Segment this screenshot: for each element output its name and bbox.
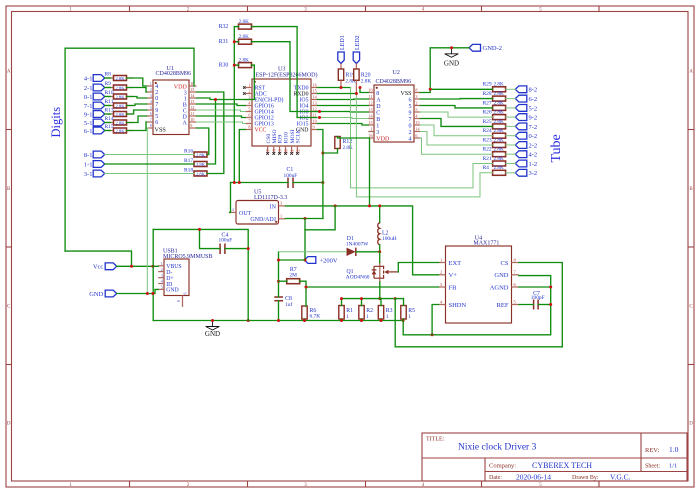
resistor R31 2.8K (219, 34, 255, 45)
svg-text:7: 7 (409, 117, 412, 123)
svg-text:GND: GND (205, 330, 220, 338)
resistor R6 6.7K (302, 306, 320, 320)
port Vcc (93, 263, 117, 271)
wire IN net (U5 IN to L2 to U4 V+) (286, 206, 439, 275)
svg-text:1: 1 (408, 314, 411, 320)
junction bottom rail (211, 319, 214, 322)
svg-text:D: D (689, 422, 693, 427)
svg-text:1/1: 1/1 (669, 463, 677, 470)
svg-text:1uf: 1uf (285, 301, 292, 308)
port LED1 (338, 35, 346, 63)
resistor R28 2.8K (483, 91, 506, 101)
port GND-2 (469, 44, 502, 52)
ic U5 LD1117D-3.3 (230, 190, 288, 225)
wire to port 2-2 (506, 144, 516, 146)
wire R5 top (395, 299, 403, 306)
port 9-2 (515, 114, 537, 122)
svg-text:R31: R31 (219, 39, 229, 45)
resistor R4 2.8K (483, 165, 506, 175)
svg-text:2-2: 2-2 (529, 142, 538, 149)
svg-text:6.7K: 6.7K (310, 314, 321, 320)
junction GND/ADJ tap (304, 217, 307, 220)
wire to port 3-2 (506, 172, 516, 174)
wire U1 VSS to GND column (147, 128, 148, 294)
svg-text:R13: R13 (105, 107, 114, 113)
svg-text:1: 1 (346, 314, 349, 320)
svg-text:6: 6 (150, 112, 152, 116)
svg-text:Vcc: Vcc (93, 264, 104, 271)
svg-text:R25: R25 (483, 119, 492, 125)
svg-text:Drawn By:: Drawn By: (572, 475, 599, 481)
wire digit line 4 (105, 113, 111, 115)
svg-text:R24: R24 (483, 128, 492, 134)
svg-text:CS0: CS0 (266, 134, 272, 144)
svg-text:2: 2 (150, 88, 152, 92)
junction REF-C7 (549, 303, 552, 306)
port 0-1 (84, 93, 105, 101)
svg-text:+200V: +200V (320, 257, 338, 264)
svg-text:2.8K: 2.8K (494, 91, 504, 97)
no-connect RST ADC (243, 86, 246, 89)
svg-text:R22: R22 (483, 147, 492, 153)
capacitor C8 1uf (274, 296, 292, 308)
svg-text:6-1: 6-1 (84, 128, 93, 135)
wire D1 anode row (279, 251, 347, 253)
svg-text:C: C (376, 110, 380, 116)
svg-text:A: A (689, 70, 693, 75)
svg-text:2020-06-14: 2020-06-14 (516, 473, 551, 482)
junction R17 branch (214, 98, 217, 101)
port 2-2 (515, 142, 537, 150)
resistor R19 2.8K (338, 64, 356, 88)
junction +200V row (277, 259, 280, 262)
svg-text:V+: V+ (449, 272, 458, 279)
wire digit line 0 (105, 77, 111, 79)
svg-text:IO10: IO10 (284, 132, 290, 144)
junction IO2 row (318, 116, 321, 119)
connector USB1 MICRO5.9MMUSB (158, 249, 212, 308)
resistor R17 2.8K (184, 158, 207, 167)
port 5-1 (84, 119, 105, 127)
svg-text:R26: R26 (483, 110, 492, 116)
svg-text:1: 1 (150, 82, 152, 86)
svg-text:1.0: 1.0 (669, 445, 679, 454)
junction GND row (146, 292, 149, 295)
svg-text:Sheet:: Sheet: (645, 464, 660, 470)
wire R5 bottom to U4 GND net (403, 276, 551, 335)
capacitor C1 100uF (284, 167, 298, 188)
port 6-1 (84, 127, 105, 135)
junction R12 tap (321, 152, 324, 155)
svg-text:2: 2 (415, 101, 417, 106)
wire to port 0-2 (506, 135, 516, 137)
svg-text:Company:: Company: (489, 463, 516, 470)
svg-text:REF: REF (497, 302, 509, 309)
wire U3 IO5 to U2 A (318, 98, 369, 101)
svg-text:R28: R28 (483, 91, 492, 97)
svg-text:9: 9 (190, 123, 192, 128)
wire GND flag to USB GND pin (117, 293, 154, 295)
svg-text:2.8K: 2.8K (196, 152, 206, 157)
wire VCC net top-left (U1 VDD rail) (65, 48, 194, 251)
resistor R15 2.8K (105, 124, 134, 133)
svg-text:1: 1 (440, 257, 442, 262)
junction source (378, 297, 381, 300)
svg-text:Tube: Tube (549, 134, 564, 162)
resistor R14 2.8K (105, 116, 134, 126)
resistor R26 2.8K (483, 110, 506, 120)
svg-text:3: 3 (376, 130, 379, 136)
wire TXD0 net to R21 wrap with R19 tap and U2 pin8 branch (318, 87, 351, 89)
svg-text:6: 6 (248, 113, 250, 118)
svg-text:13: 13 (368, 107, 372, 112)
svg-text:5: 5 (161, 285, 163, 290)
svg-text:CD4028BM96: CD4028BM96 (376, 79, 412, 85)
svg-text:7-2: 7-2 (529, 124, 538, 131)
port 1-1 (84, 161, 105, 169)
wire CS net loop (395, 263, 562, 347)
svg-text:3-2: 3-2 (529, 170, 538, 177)
svg-text:15: 15 (368, 120, 372, 125)
junction IO0 row (318, 110, 321, 113)
wire U2 VDD to R12 (338, 137, 369, 139)
svg-text:1: 1 (376, 123, 379, 129)
wire U3 GND down column to GND/ADJ (318, 130, 323, 219)
svg-text:R11: R11 (105, 99, 114, 105)
svg-text:2: 2 (248, 89, 250, 94)
svg-text:LED1: LED1 (340, 35, 346, 50)
wire to port 8-2 (506, 88, 516, 90)
svg-text:9-1: 9-1 (84, 111, 93, 118)
svg-text:2.8K: 2.8K (196, 162, 206, 167)
svg-text:ESP-12F(ESP8266MOD): ESP-12F(ESP8266MOD) (256, 72, 318, 79)
svg-text:3: 3 (161, 273, 163, 278)
svg-text:8: 8 (248, 125, 250, 130)
wire +200V column x=278.5 (279, 259, 305, 261)
port 3-2 (515, 169, 537, 177)
svg-text:2-1: 2-1 (84, 85, 93, 92)
svg-text:10: 10 (313, 119, 317, 124)
wire digit line 5 (105, 122, 111, 124)
svg-text:GND: GND (494, 272, 508, 279)
svg-text:EXT: EXT (449, 260, 462, 267)
port 2-1 (84, 84, 105, 92)
wire U1 pin15 to R18 (197, 92, 224, 174)
wire digit line 3 (105, 105, 111, 107)
resistor R7 2M (287, 267, 300, 284)
port 4-1 (84, 75, 105, 83)
junction R19 bottom (340, 86, 343, 89)
wire stair U2 pin2 to R23 (420, 132, 492, 146)
svg-text:2M: 2M (289, 273, 297, 279)
svg-text:1: 1 (280, 213, 282, 218)
port 7-2 (515, 123, 537, 131)
svg-text:3: 3 (150, 94, 152, 98)
svg-text:9: 9 (313, 125, 315, 130)
resistor R13 2.8K (105, 107, 134, 117)
svg-text:2.8K: 2.8K (494, 156, 504, 162)
svg-text:GND: GND (444, 59, 459, 67)
junction L2 bottom (378, 250, 381, 253)
svg-text:CS: CS (501, 260, 509, 267)
ic U4 MAX1771 (439, 236, 519, 324)
svg-text:5-2: 5-2 (529, 105, 538, 112)
resistor R25 2.8K (483, 119, 506, 129)
svg-text:3-1: 3-1 (84, 171, 93, 178)
junction C4 right (247, 247, 250, 250)
svg-text:R32: R32 (219, 24, 229, 30)
wire to port 4-2 (506, 153, 516, 155)
svg-text:2.8K: 2.8K (494, 165, 504, 171)
svg-text:2.8K: 2.8K (115, 94, 125, 99)
svg-text:2.8K: 2.8K (494, 119, 504, 125)
svg-text:TITLE:: TITLE: (426, 437, 445, 443)
svg-text:R17: R17 (184, 158, 193, 164)
svg-text:R9: R9 (105, 81, 112, 87)
wire to port 5-2 (506, 107, 516, 109)
svg-text:5: 5 (248, 107, 250, 112)
wire Q1 source to sense rail (379, 282, 381, 299)
svg-text:D-: D- (166, 270, 172, 276)
wire port 1-1 to R17 (105, 163, 194, 165)
svg-text:3: 3 (280, 201, 282, 206)
svg-text:8: 8 (415, 88, 417, 93)
junction AGND (549, 286, 552, 289)
svg-text:4-2: 4-2 (529, 152, 538, 159)
junction GND-2 row (450, 46, 453, 49)
svg-text:2.8K: 2.8K (115, 112, 125, 117)
wire sense rail R1 R2 R3 (342, 298, 396, 300)
junction R20 bottom (355, 92, 358, 95)
wire REF through C7 (519, 304, 534, 306)
port 9-1 (84, 111, 105, 119)
svg-text:1: 1 (161, 261, 163, 266)
svg-text:8: 8 (150, 124, 152, 128)
resistor R12 2.8K (335, 137, 353, 152)
wire port 8-1 to R16 (105, 154, 194, 156)
wire R32 to IO2 row (251, 27, 317, 118)
resistor R23 2.8K (483, 137, 506, 147)
svg-text:8-1: 8-1 (84, 152, 93, 159)
svg-text:4-1: 4-1 (84, 75, 93, 82)
port 7-1 (84, 102, 105, 110)
svg-text:15: 15 (415, 120, 419, 125)
capacitor C7 100pF (531, 291, 545, 310)
svg-text:D: D (7, 422, 11, 427)
svg-text:R8: R8 (105, 71, 112, 77)
svg-text:7: 7 (248, 119, 250, 124)
svg-text:1: 1 (386, 314, 389, 320)
svg-text:VSS: VSS (400, 91, 411, 97)
svg-text:R18: R18 (184, 168, 193, 174)
svg-text:16: 16 (313, 83, 317, 88)
svg-text:A: A (376, 97, 381, 103)
wire L2 bottom to Q1 drain (379, 252, 381, 263)
title block (422, 433, 687, 481)
resistor R3 1 (378, 306, 392, 320)
svg-text:U2: U2 (393, 70, 400, 76)
wire U1 pin11 to U3 GPIO12 (197, 116, 246, 118)
resistor R27 2.8K (483, 100, 506, 110)
svg-text:2.8K: 2.8K (239, 57, 249, 63)
svg-text:6: 6 (415, 133, 417, 138)
wire stair U2 pin4 to R22 (420, 138, 492, 154)
svg-text:Date:: Date: (489, 475, 502, 481)
resistor R22 2.8K (483, 147, 506, 157)
port GND left (89, 290, 116, 298)
wire D1 cathode to L2 bottom node (356, 251, 380, 253)
wire AGND to column (519, 286, 551, 288)
wire stair U2 pin7 to R25 (420, 119, 492, 127)
svg-text:13: 13 (190, 99, 194, 104)
svg-text:12: 12 (368, 101, 372, 106)
svg-text:6: 6 (409, 97, 412, 103)
ic U2 CD4028BM96 (368, 70, 420, 142)
wire EXT net to Q1 gate (398, 263, 438, 272)
wire R7 left (279, 280, 288, 282)
junction SHDN on GND net (431, 333, 434, 336)
ic U1 CD4028BM96 (147, 66, 197, 135)
svg-text:LD1117D-3.3: LD1117D-3.3 (254, 195, 287, 201)
svg-text:2.8K: 2.8K (115, 103, 125, 108)
svg-text:11: 11 (190, 111, 194, 116)
svg-text:2.8K: 2.8K (494, 100, 504, 106)
junction R31 left (233, 40, 236, 43)
resistor R30 2.8K (219, 57, 255, 68)
svg-text:R4: R4 (483, 165, 490, 171)
wire stair U2 pin0 to R24 (420, 125, 492, 136)
junction U2 pin8 branch (359, 86, 362, 89)
wire to port 1-2 (506, 163, 516, 165)
wire stair U2 pin9 to R26 (420, 112, 492, 117)
svg-text:A: A (182, 120, 187, 126)
wire C4 loop and USB rails (153, 229, 248, 320)
svg-text:MAX1771: MAX1771 (473, 241, 499, 247)
svg-text:IN: IN (270, 204, 277, 210)
svg-text:GND: GND (166, 288, 179, 294)
port 3-1 (84, 170, 105, 178)
svg-text:2.8K: 2.8K (494, 147, 504, 153)
junction IN-L2 (378, 204, 381, 207)
svg-text:2.8K: 2.8K (343, 145, 353, 151)
svg-text:7: 7 (150, 118, 152, 122)
port 4-2 (515, 151, 537, 159)
resistor R10 2.8K (105, 90, 134, 100)
wire jog IN tap to +200V column (305, 206, 335, 230)
svg-text:100uH: 100uH (382, 236, 397, 242)
inductor L2 100uH (378, 206, 397, 252)
junction R30 left (233, 64, 236, 67)
svg-text:R30: R30 (219, 63, 229, 69)
resistor R2 1 (359, 306, 373, 320)
svg-text:6-2: 6-2 (529, 96, 538, 103)
svg-text:2.8K: 2.8K (115, 120, 125, 125)
ground symbol bottom (206, 321, 220, 331)
svg-text:D: D (376, 104, 381, 110)
wire U1 pin12 to U3 GPIO14 (197, 110, 246, 112)
wire port 3-1 to R18 (105, 173, 194, 175)
wire to port 6-2 (506, 98, 516, 100)
wire U5 top rail with C1 (231, 182, 289, 184)
svg-text:0-2: 0-2 (529, 133, 538, 140)
svg-text:LED2: LED2 (355, 35, 361, 50)
svg-text:2.8K: 2.8K (239, 34, 249, 40)
svg-text:2.8K: 2.8K (361, 79, 371, 85)
wire R30 to EN net (245, 65, 254, 99)
wire U1 pin14 / EN(CH-PD) net with R17 branch (197, 98, 246, 100)
junction FB (305, 286, 308, 289)
port 0-2 (515, 132, 537, 140)
svg-text:4: 4 (150, 100, 152, 104)
svg-text:Digits: Digits (49, 107, 63, 138)
svg-text:FB: FB (449, 284, 458, 291)
resistor R32 2.8K (219, 19, 255, 30)
svg-text:SCLK: SCLK (296, 129, 302, 143)
svg-text:5-1: 5-1 (84, 120, 93, 127)
svg-text:8-2: 8-2 (529, 87, 538, 94)
svg-text:2: 2 (440, 270, 442, 275)
svg-text:2.8K: 2.8K (494, 110, 504, 116)
junction sense rail (340, 297, 343, 300)
svg-text:1N4007W: 1N4007W (346, 241, 369, 247)
svg-text:100pF: 100pF (531, 295, 545, 301)
svg-text:GND/ADJ: GND/ADJ (250, 217, 276, 223)
svg-text:2.8K: 2.8K (494, 137, 504, 143)
svg-text:EN(CH-PD): EN(CH-PD) (255, 97, 284, 104)
resistor R1 1 (339, 306, 353, 320)
svg-text:6: 6 (183, 292, 188, 294)
svg-text:6: 6 (176, 300, 181, 302)
svg-text:R10: R10 (105, 90, 114, 96)
resistor R11 2.8K (105, 99, 134, 109)
svg-text:100uF: 100uF (219, 238, 233, 244)
wire SHDN (432, 305, 438, 335)
wire GND-2 net to R29 and U2 VSS (430, 48, 492, 90)
svg-text:1: 1 (366, 314, 369, 320)
capacitor C4 100uF (219, 232, 233, 254)
wire U1 pin13 to U3 GPIO16 (197, 104, 246, 106)
svg-text:VSS: VSS (155, 127, 167, 134)
svg-text:7-1: 7-1 (84, 103, 93, 110)
svg-text:AGND: AGND (490, 284, 509, 291)
svg-text:V.G.C.: V.G.C. (610, 473, 631, 482)
svg-text:2.8K: 2.8K (494, 82, 504, 88)
svg-text:R27: R27 (483, 100, 492, 106)
svg-text:REV:: REV: (645, 447, 660, 454)
resistor R8 2.8K (105, 71, 134, 81)
port 8-1 (84, 151, 105, 159)
wire FB net to U4 (306, 286, 439, 288)
wire U3 IO2 to U2 B (318, 118, 369, 119)
ground symbol top (445, 48, 459, 58)
svg-text:0-1: 0-1 (84, 94, 93, 101)
svg-text:3: 3 (415, 94, 417, 99)
wire bottom ground rail (153, 320, 403, 322)
junction at +200V tip (304, 259, 307, 262)
svg-text:2: 2 (409, 130, 412, 136)
svg-text:1-2: 1-2 (529, 161, 538, 168)
svg-text:10: 10 (368, 88, 372, 93)
resistor R9 2.8K (105, 81, 134, 91)
svg-text:1-1: 1-1 (84, 161, 93, 168)
svg-text:Nixie clock Driver 3: Nixie clock Driver 3 (458, 443, 537, 453)
wire U1 pin10 to U3 GPIO13 (197, 122, 246, 124)
svg-text:12: 12 (190, 105, 194, 110)
svg-text:5: 5 (150, 106, 152, 110)
junction Vcc row (130, 265, 133, 268)
svg-text:10: 10 (190, 117, 194, 122)
wire U2 VDD down to IN net (369, 138, 371, 206)
